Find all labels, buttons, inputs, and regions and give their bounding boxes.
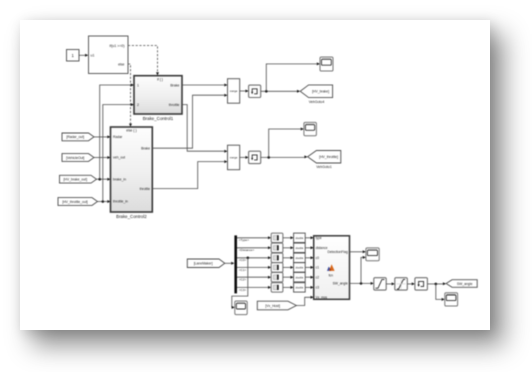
svg-text:Vx_mps: Vx_mps	[316, 296, 328, 300]
wire Merge2 to unit block	[240, 156, 249, 159]
wire to conversion row 1	[283, 236, 294, 239]
signal label <C0>	[239, 258, 247, 262]
from block [HV_brake_out]	[60, 175, 97, 183]
svg-text:DetectionFlag: DetectionFlag	[327, 250, 348, 254]
merge block Merge2	[228, 145, 240, 170]
data type conversion "double" row 3	[294, 253, 306, 262]
MATLAB Function block fcn	[314, 236, 350, 300]
svg-text:Brake: Brake	[141, 146, 150, 150]
svg-text:c3: c3	[316, 286, 320, 290]
svg-text:double: double	[296, 275, 304, 279]
svg-text:fcn: fcn	[329, 273, 334, 277]
wire to conversion row 6	[283, 286, 294, 289]
memory block row 4	[271, 263, 283, 272]
wire branch up to Scope2	[269, 128, 304, 158]
signal conversion block after Merge2	[249, 151, 261, 163]
svg-text:veh_out: veh_out	[113, 156, 125, 160]
bus wire <Distance> row 2	[237, 246, 271, 249]
wire VehicleOut to Brake_Control2.veh_out	[94, 156, 111, 159]
svg-text:2: 2	[137, 103, 139, 107]
subsystem Brake_Control1	[134, 76, 182, 122]
wire to conversion row 5	[283, 276, 294, 279]
saturation block	[374, 278, 386, 290]
memory block row 1	[271, 233, 283, 242]
from block [VehicleOut]	[62, 154, 94, 162]
label VehGoto4	[309, 100, 325, 104]
from block [LaneMaker]	[187, 259, 225, 268]
from block [Radar_out]	[62, 133, 94, 141]
svg-text:Brake: Brake	[170, 83, 179, 87]
wire Rate Limiter to unit block	[407, 282, 415, 285]
svg-text:<Type>: <Type>	[239, 238, 250, 242]
bus wire <C3> row 6	[237, 286, 271, 289]
data type conversion "double" row 2	[294, 243, 306, 252]
svg-text:double: double	[296, 246, 304, 250]
wire into fcn port c1	[305, 266, 314, 269]
wire into fcn port c0	[305, 256, 314, 259]
dashed action wire: else output to Brake_Control2	[128, 64, 132, 127]
label VehGoto1	[316, 165, 332, 169]
signal conversion block after Merge1	[249, 85, 261, 97]
svg-text:[HV_throttle]: [HV_throttle]	[319, 155, 338, 159]
svg-text:[HV_brake]: [HV_brake]	[312, 90, 329, 94]
data type conversion "double" row 1	[294, 233, 306, 242]
svg-text:distance: distance	[316, 246, 328, 250]
svg-text:merge: merge	[230, 156, 238, 160]
wire junction up to Brake_Control1 input 1	[100, 84, 134, 180]
svg-text:c2: c2	[316, 276, 320, 280]
svg-text:[HV_brake_out]: [HV_brake_out]	[63, 178, 87, 182]
dashed action wire: if() output to Brake_Control1	[128, 46, 159, 76]
signal label <C2>	[239, 278, 247, 282]
svg-text:throttle_in: throttle_in	[113, 200, 128, 204]
wire Brake_Control1.throttle to Merge2	[182, 105, 228, 153]
svg-text:VehGoto4: VehGoto4	[309, 100, 325, 104]
constant block Const "1"	[67, 50, 80, 62]
svg-text:SW_angle: SW_angle	[333, 282, 348, 286]
wire to conversion row 4	[283, 266, 294, 269]
wire to HV_brake goto with junction	[261, 90, 301, 93]
wire Radar_out to Brake_Control2.Radar	[94, 135, 111, 138]
memory block row 3	[271, 253, 283, 262]
signal label <C1>	[239, 268, 247, 272]
wire Brake_Control2.Brake to Merge1	[152, 94, 227, 149]
data type conversion "double" row 4	[294, 263, 306, 272]
svg-text:c0: c0	[316, 256, 320, 260]
bus wire <C2> row 5	[237, 276, 271, 279]
scope Scope2	[304, 122, 317, 135]
svg-text:[VehicleOut]: [VehicleOut]	[66, 156, 84, 160]
wire branch up to Scope1	[266, 62, 320, 91]
wire Vx_Host to fcn Vx_mps	[296, 296, 313, 306]
wire Const to If block	[79, 54, 88, 57]
svg-text:<C1>: <C1>	[239, 268, 247, 272]
memory block row 5	[271, 273, 283, 282]
white page with drop shadow	[20, 20, 490, 330]
scope Scope6	[235, 301, 247, 315]
svg-text:<C3>: <C3>	[239, 288, 247, 292]
memory block row 6	[271, 283, 283, 292]
rate limiter block	[395, 278, 408, 290]
MATLAB logo inside fcn	[327, 264, 335, 271]
svg-text:[HV_throttle_out]: [HV_throttle_out]	[62, 200, 88, 204]
wire to SW_angle goto with junction	[427, 282, 446, 285]
wire into fcn port type	[305, 236, 314, 239]
svg-text:throttle: throttle	[169, 103, 180, 107]
svg-text:Radar: Radar	[113, 135, 123, 139]
from block [Vx_Host]	[257, 301, 296, 310]
svg-text:if(u1 >=0): if(u1 >=0)	[110, 44, 125, 48]
wire branch up to Scope5 second input	[361, 256, 366, 284]
data type conversion "double" row 6	[294, 283, 306, 292]
wire Brake_Control1.Brake to Merge1	[182, 84, 228, 87]
If block u1	[89, 36, 129, 74]
wire branch down to Scope7	[436, 284, 445, 301]
svg-text:merge: merge	[230, 89, 238, 93]
goto block [HV_brake] VehGoto4	[300, 85, 332, 98]
wire into fcn port distance	[305, 246, 314, 249]
svg-text:else: else	[118, 62, 124, 66]
svg-text:1: 1	[137, 83, 139, 87]
wire to conversion row 2	[283, 246, 294, 249]
wire SW_angle to Saturation with junction	[350, 282, 374, 285]
wire Brake_Control2.throttle to Merge2	[152, 160, 227, 189]
svg-text:Brake_Control1: Brake_Control1	[143, 116, 174, 121]
signal label <C3>	[239, 288, 247, 292]
svg-text:throttle: throttle	[140, 187, 150, 191]
scope Scope7	[445, 293, 458, 306]
goto block SW_angle	[446, 280, 477, 288]
svg-text:brake_in: brake_in	[113, 177, 126, 181]
data type conversion "double" row 5	[294, 273, 306, 282]
svg-text:double: double	[296, 236, 304, 240]
svg-text:u1: u1	[91, 54, 95, 58]
junction on brake_in wire	[98, 178, 101, 181]
signal label <Type>	[239, 238, 250, 242]
svg-text:else { }: else { }	[126, 129, 137, 133]
svg-text:<Distance>: <Distance>	[239, 248, 255, 252]
signal label <Distance>	[239, 248, 255, 252]
merge block Merge1	[228, 79, 240, 104]
wire LaneMaker to bus selector	[225, 262, 235, 265]
bus wire <Type> row 1	[237, 236, 271, 239]
bus wire <C1> row 4	[237, 266, 271, 269]
junction on C0 row	[247, 257, 250, 260]
svg-text:[Vx_Host]: [Vx_Host]	[265, 304, 280, 308]
junction on throttle_in wire	[102, 200, 105, 203]
subsystem Brake_Control2	[111, 127, 153, 219]
svg-text:c1: c1	[316, 266, 320, 270]
scope Scope5	[366, 248, 379, 261]
svg-text:<C2>: <C2>	[239, 278, 247, 282]
svg-text:double: double	[296, 256, 304, 260]
svg-text:<C0>: <C0>	[239, 258, 247, 262]
svg-text:type: type	[316, 236, 322, 240]
wire HV_throttle_out to Brake_Control2.throttle_in	[98, 200, 111, 203]
svg-text:Brake_Control2: Brake_Control2	[116, 214, 147, 219]
svg-text:SW_angle: SW_angle	[457, 282, 473, 286]
wire to conversion row 3	[283, 256, 294, 259]
memory block row 2	[271, 243, 283, 252]
wire DetectionFlag to Scope5	[350, 250, 366, 253]
wire Merge1 to unit block	[240, 90, 249, 93]
bus selector bar	[234, 235, 237, 293]
svg-text:[Radar_out]: [Radar_out]	[66, 135, 84, 139]
from block [HV_throttle_out]	[58, 198, 98, 206]
wire to HV_throttle goto with junction	[261, 155, 308, 158]
wire Saturation to Rate Limiter	[386, 282, 395, 285]
svg-text:double: double	[296, 266, 304, 270]
wire junction up to Brake_Control1 input 2	[103, 103, 134, 201]
wire C0 branch down to Scope6	[232, 258, 248, 309]
bus wire <C0> row 3	[237, 256, 271, 259]
svg-text:[LaneMaker]: [LaneMaker]	[194, 262, 213, 266]
goto block [HV_throttle] VehGoto1	[308, 151, 341, 164]
svg-text:double: double	[296, 286, 304, 290]
wire HV_brake_out to Brake_Control2.brake_in	[97, 178, 111, 181]
wire into fcn port c2	[305, 276, 314, 279]
wire into fcn port c3	[305, 286, 314, 289]
signal conversion block before SW_angle goto	[415, 278, 428, 290]
scope Scope1	[320, 57, 333, 71]
svg-text:if { }: if { }	[157, 78, 164, 82]
svg-text:VehGoto1: VehGoto1	[316, 165, 332, 169]
